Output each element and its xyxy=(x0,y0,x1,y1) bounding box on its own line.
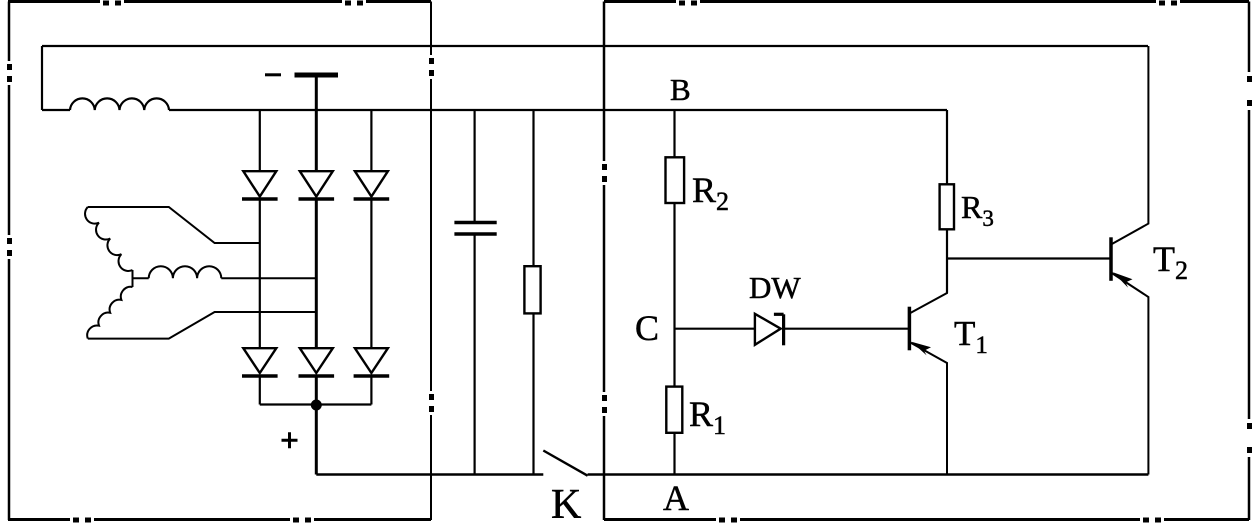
svg-text:A: A xyxy=(663,478,689,518)
svg-text:DW: DW xyxy=(749,270,801,305)
svg-text:K: K xyxy=(551,482,581,523)
svg-text:C: C xyxy=(635,308,659,348)
svg-text:B: B xyxy=(670,72,691,107)
